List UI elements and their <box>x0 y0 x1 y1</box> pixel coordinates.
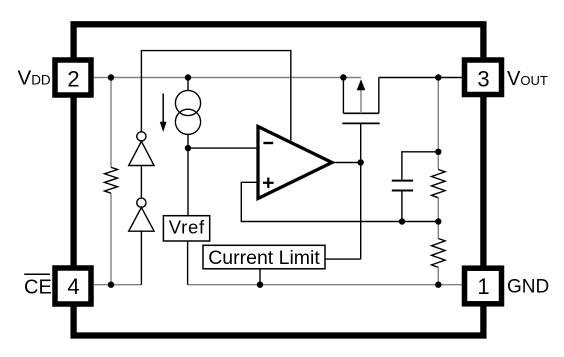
wire op-amp inverting input <box>188 147 258 149</box>
wire VDD rail <box>94 77 361 79</box>
junction node VDD / pull resistor <box>108 74 114 80</box>
junction node feedback / capacitor top <box>435 149 441 155</box>
op-amp U1 <box>258 127 332 199</box>
wire pull resistor lower branch <box>110 193 112 285</box>
wire enable line to op-amp <box>141 51 290 141</box>
Vref box <box>163 216 209 241</box>
svg-text:Vref: Vref <box>169 216 205 237</box>
svg-text:3: 3 <box>477 67 489 92</box>
svg-text:Current Limit: Current Limit <box>208 247 320 269</box>
capacitor C1 branch <box>392 152 439 222</box>
wire op-amp output <box>332 162 361 164</box>
wire gate node to current limit <box>360 163 362 260</box>
wire Vref to GND rail <box>187 241 189 285</box>
wire current limit to GND rail <box>259 269 261 285</box>
wire current limit output <box>325 258 361 260</box>
inverter U3 <box>129 207 154 231</box>
wire inverter input from CE rail <box>140 231 142 285</box>
junction node CE / pull resistor <box>108 282 114 288</box>
wire R3 to GND rail <box>437 267 439 284</box>
resistor R2 (feedback upper) <box>432 170 446 198</box>
wire GND rail <box>188 284 462 286</box>
current source I1 <box>175 78 200 149</box>
junction node VOUT / feedback <box>435 74 441 80</box>
junction node op-amp output / gate <box>358 159 364 165</box>
wire between divider resistors <box>437 198 439 239</box>
resistor R3 (feedback lower) <box>432 239 446 268</box>
IC outline border <box>74 24 484 335</box>
pin box 1 <box>465 268 502 304</box>
junction node VDD / transistor source <box>340 74 346 80</box>
junction node VDD / current source <box>185 74 191 80</box>
transistor M1 driver <box>342 78 379 163</box>
junction node Vref / inverting input <box>185 145 191 151</box>
pin box 3 <box>465 60 502 95</box>
wire feedback divider top <box>437 78 439 152</box>
junction node GND / current limit <box>257 282 263 288</box>
junction node capacitor bottom <box>399 218 405 224</box>
junction node GND / divider bottom <box>435 282 441 288</box>
svg-text:GND: GND <box>507 276 549 297</box>
junction node divider midpoint <box>435 218 441 224</box>
wire VOUT from drain <box>379 77 462 79</box>
wire feedback to non-inverting input <box>241 182 438 221</box>
wire current source to Vref <box>187 148 189 216</box>
pin box 4 <box>55 268 91 304</box>
current direction arrow <box>160 94 167 133</box>
svg-text:1: 1 <box>477 274 489 299</box>
wire CE rail <box>94 284 141 286</box>
inverter U2 <box>129 141 154 165</box>
svg-text:2: 2 <box>67 67 79 92</box>
Current Limit box <box>203 245 325 269</box>
inverter U2 bubble <box>137 132 146 141</box>
pin box 2 <box>55 60 91 95</box>
wire R2 top <box>437 152 439 170</box>
wire pull resistor upper branch <box>110 78 112 168</box>
svg-text:CE: CE <box>24 276 52 298</box>
inverter U3 bubble <box>137 198 146 207</box>
wire between inverters <box>140 166 142 199</box>
label CE (active low) <box>24 274 52 298</box>
svg-text:4: 4 <box>67 274 79 299</box>
resistor R1 (CE pull resistor) <box>105 167 118 193</box>
